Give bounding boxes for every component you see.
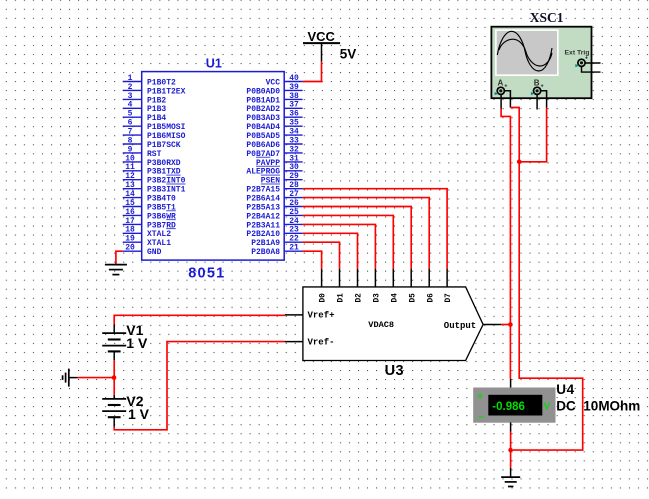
wire pin25 to DAC D4 bbox=[303, 215, 394, 269]
wire scope B dangling stub bbox=[536, 95, 538, 110]
pin 23 P2B2A10 bbox=[284, 232, 302, 234]
oscilloscope XSC1 bbox=[491, 27, 600, 99]
svg-text:PSEN: PSEN bbox=[261, 177, 280, 186]
pin 8 P1B7SCK bbox=[123, 143, 142, 145]
svg-text:P1B0T2: P1B0T2 bbox=[147, 78, 176, 87]
svg-text:P2B7A15: P2B7A15 bbox=[246, 186, 280, 195]
wire pin27 to DAC D6 bbox=[303, 198, 430, 269]
svg-text:32: 32 bbox=[289, 145, 299, 154]
svg-text:P3B7RD: P3B7RD bbox=[147, 221, 176, 230]
svg-text:13: 13 bbox=[125, 181, 135, 190]
svg-text:5: 5 bbox=[128, 110, 133, 119]
svg-text:P3B6WR: P3B6WR bbox=[147, 212, 176, 221]
svg-text:P2B2A10: P2B2A10 bbox=[246, 230, 280, 239]
svg-text:7: 7 bbox=[128, 128, 133, 137]
multimeter U4 bbox=[473, 379, 555, 432]
svg-text:P1B7SCK: P1B7SCK bbox=[147, 141, 181, 150]
svg-text:35: 35 bbox=[289, 119, 299, 128]
pin D3 bbox=[374, 269, 376, 287]
svg-text:38: 38 bbox=[289, 92, 299, 101]
pin D4 bbox=[392, 269, 394, 287]
svg-text:VCC: VCC bbox=[308, 29, 336, 44]
svg-text:A: A bbox=[498, 79, 504, 88]
waveform trace channel A bbox=[497, 31, 552, 71]
svg-text:15: 15 bbox=[125, 199, 135, 208]
pin 10 P3B0RXD bbox=[123, 161, 142, 163]
svg-text:P2B6A14: P2B6A14 bbox=[246, 195, 280, 204]
waveform trace channel B bbox=[499, 39, 552, 66]
pin 35 P0B4AD4 bbox=[284, 125, 302, 127]
wire A-right to B net bbox=[510, 108, 519, 162]
pin 33 P0B6AD6 bbox=[284, 143, 302, 145]
wire pin20 to ground bbox=[116, 251, 123, 264]
pin 17 P3B7RD bbox=[123, 223, 142, 225]
wire scope A right stub bbox=[505, 91, 511, 108]
wire scope A stub bbox=[500, 95, 502, 109]
pin 11 P3B1TXD bbox=[123, 170, 142, 172]
svg-text:RST: RST bbox=[147, 150, 162, 159]
svg-text:P1B6MISO: P1B6MISO bbox=[147, 132, 186, 141]
wire DAC output to node bbox=[501, 324, 510, 326]
svg-text:+: + bbox=[541, 83, 544, 89]
battery V2 bbox=[102, 395, 126, 427]
svg-text:2: 2 bbox=[128, 83, 133, 92]
pin 28 P2B7A15 bbox=[284, 188, 302, 190]
pin 18 XTAL2 bbox=[123, 232, 142, 234]
pin 20 GND bbox=[123, 250, 142, 252]
DAC U3 (VDAC8) bbox=[285, 269, 501, 361]
svg-text:10MOhm: 10MOhm bbox=[583, 399, 640, 414]
svg-text:8051: 8051 bbox=[188, 265, 225, 281]
pin D2 bbox=[357, 269, 359, 287]
pin 2 P1B1T2EX bbox=[123, 89, 142, 91]
svg-text:37: 37 bbox=[289, 101, 299, 110]
svg-text:28: 28 bbox=[289, 181, 299, 190]
svg-text:P2B3A11: P2B3A11 bbox=[246, 221, 280, 230]
svg-text:V: V bbox=[544, 401, 551, 412]
svg-text:Output: Output bbox=[444, 321, 476, 331]
pin 32 P0B7AD7 bbox=[284, 152, 302, 154]
pin 37 P0B2AD2 bbox=[284, 107, 302, 109]
svg-text:11: 11 bbox=[125, 163, 135, 172]
svg-text:-0.986: -0.986 bbox=[492, 401, 525, 413]
svg-text:24: 24 bbox=[289, 217, 299, 226]
pin 30 ALEPROG bbox=[284, 170, 302, 172]
svg-text:P0B5AD5: P0B5AD5 bbox=[246, 132, 280, 141]
meter display bbox=[488, 395, 542, 416]
svg-text:D0: D0 bbox=[320, 293, 328, 303]
svg-text:29: 29 bbox=[289, 172, 299, 181]
svg-text:U4: U4 bbox=[556, 382, 574, 397]
svg-text:10: 10 bbox=[125, 154, 135, 163]
wire scope A to meter + (through DAC output node) bbox=[501, 109, 510, 379]
svg-text:D3: D3 bbox=[374, 293, 382, 303]
svg-text:P0B3AD3: P0B3AD3 bbox=[246, 114, 280, 123]
svg-text:P2B0A8: P2B0A8 bbox=[251, 248, 280, 257]
pin Vref- bbox=[285, 341, 303, 343]
svg-text:36: 36 bbox=[289, 110, 299, 119]
8051 microcontroller U1 bbox=[123, 72, 303, 261]
pin 12 P3B2INT0 bbox=[123, 179, 142, 181]
svg-text:ALEPROG: ALEPROG bbox=[246, 168, 280, 177]
wire scope B right stub bbox=[541, 91, 547, 108]
svg-text:30: 30 bbox=[289, 163, 299, 172]
wire B net to meter - (right bypass) bbox=[513, 162, 583, 450]
svg-text:P3B2INT0: P3B2INT0 bbox=[147, 177, 186, 186]
pin D6 bbox=[428, 269, 430, 287]
pin D1 bbox=[339, 269, 341, 287]
svg-text:P3B0RXD: P3B0RXD bbox=[147, 159, 181, 168]
junction DAC output bbox=[508, 322, 513, 327]
wire V2- to Vref- bbox=[114, 342, 285, 430]
wire pin21 to DAC D0 bbox=[303, 251, 322, 269]
svg-text:P2B4A12: P2B4A12 bbox=[246, 212, 280, 221]
wire pin22 to DAC D1 bbox=[303, 242, 340, 269]
svg-text:23: 23 bbox=[289, 226, 299, 235]
svg-text:P1B2: P1B2 bbox=[147, 96, 166, 105]
svg-text:33: 33 bbox=[289, 136, 299, 145]
svg-text:XSC1: XSC1 bbox=[530, 10, 564, 25]
svg-text:22: 22 bbox=[289, 235, 299, 244]
scope body bbox=[491, 27, 591, 99]
svg-text:27: 27 bbox=[289, 190, 299, 199]
pin 29 PSEN bbox=[284, 179, 302, 181]
svg-text:XTAL1: XTAL1 bbox=[147, 239, 171, 248]
pin 7 P1B6MISO bbox=[123, 134, 142, 136]
pin 14 P3B4T0 bbox=[123, 197, 142, 199]
ground GND3 bbox=[501, 477, 520, 486]
pin 13 P3B3INT1 bbox=[123, 188, 142, 190]
battery V1 bbox=[102, 325, 126, 361]
svg-text:PAVPP: PAVPP bbox=[256, 159, 280, 168]
svg-text:+: + bbox=[504, 83, 507, 89]
pin 27 P2B6A14 bbox=[284, 197, 302, 199]
svg-text:+: + bbox=[585, 55, 588, 61]
svg-text:U3: U3 bbox=[385, 363, 404, 379]
junction meter ground node bbox=[508, 448, 513, 453]
junction scope B net bbox=[517, 160, 522, 165]
svg-text:9: 9 bbox=[128, 145, 133, 154]
svg-text:39: 39 bbox=[289, 83, 299, 92]
svg-text:P2B5A13: P2B5A13 bbox=[246, 203, 280, 212]
svg-text:P0B2AD2: P0B2AD2 bbox=[246, 105, 280, 114]
pin Vref+ bbox=[285, 314, 303, 316]
svg-text:8: 8 bbox=[128, 136, 133, 145]
wire V1+ to Vref+ bbox=[114, 315, 285, 324]
pin 39 P0B0AD0 bbox=[284, 89, 302, 91]
terminal A bbox=[497, 87, 504, 94]
meter top pin stub bbox=[510, 379, 512, 388]
junction battery midpoint bbox=[112, 375, 117, 380]
svg-text:19: 19 bbox=[125, 235, 135, 244]
svg-text:P0B7AD7: P0B7AD7 bbox=[246, 150, 280, 159]
pin D7 bbox=[446, 269, 448, 287]
svg-text:D2: D2 bbox=[356, 293, 364, 303]
pin 4 P1B3 bbox=[123, 107, 142, 109]
svg-text:14: 14 bbox=[125, 190, 135, 199]
svg-text:1: 1 bbox=[128, 74, 133, 83]
pin 36 P0B3AD3 bbox=[284, 116, 302, 118]
svg-text:Vref-: Vref- bbox=[308, 337, 335, 347]
pin 15 P3B5T1 bbox=[123, 206, 142, 208]
svg-text:31: 31 bbox=[289, 154, 299, 163]
svg-text:34: 34 bbox=[289, 128, 299, 137]
svg-text:P2B1A9: P2B1A9 bbox=[251, 239, 280, 248]
svg-text:P3B4T0: P3B4T0 bbox=[147, 195, 176, 204]
svg-text:21: 21 bbox=[289, 244, 299, 253]
svg-text:3: 3 bbox=[128, 92, 133, 101]
pin 40 VCC bbox=[284, 81, 302, 83]
wire pin28 to DAC D7 bbox=[303, 189, 448, 269]
svg-text:P3B5T1: P3B5T1 bbox=[147, 203, 176, 212]
svg-text:40: 40 bbox=[289, 74, 299, 83]
U1 body outline bbox=[142, 72, 285, 261]
pin Output bbox=[483, 324, 501, 326]
svg-text:12: 12 bbox=[125, 172, 135, 181]
terminal Ext Trig bbox=[578, 59, 585, 66]
pin D0 bbox=[321, 269, 323, 287]
pin 31 PAVPP bbox=[284, 161, 302, 163]
svg-text:17: 17 bbox=[125, 217, 135, 226]
pin 16 P3B6WR bbox=[123, 214, 142, 216]
wire pin24 to DAC D3 bbox=[303, 224, 376, 269]
svg-text:6: 6 bbox=[128, 119, 133, 128]
svg-text:VDAC8: VDAC8 bbox=[368, 320, 394, 330]
ground GND2 (rotated) bbox=[63, 369, 78, 387]
pin 9 RST bbox=[123, 152, 142, 154]
svg-text:+: + bbox=[477, 391, 483, 402]
pin 21 P2B0A8 bbox=[284, 250, 302, 252]
svg-text:D1: D1 bbox=[338, 293, 346, 303]
svg-text:GND: GND bbox=[147, 248, 162, 257]
svg-text:1 V: 1 V bbox=[126, 335, 148, 351]
svg-text:B: B bbox=[534, 79, 540, 88]
svg-text:P1B5MOSI: P1B5MOSI bbox=[147, 123, 186, 132]
wire Ext Trig stubs bbox=[582, 63, 601, 72]
pin 24 P2B3A11 bbox=[284, 223, 302, 225]
svg-text:16: 16 bbox=[125, 208, 135, 217]
svg-text:20: 20 bbox=[125, 244, 135, 253]
svg-text:P0B1AD1: P0B1AD1 bbox=[246, 96, 280, 105]
terminal B bbox=[534, 87, 541, 94]
svg-text:4: 4 bbox=[128, 101, 133, 110]
svg-text:P0B0AD0: P0B0AD0 bbox=[246, 87, 280, 96]
svg-text:P3B1TXD: P3B1TXD bbox=[147, 168, 181, 177]
svg-text:5V: 5V bbox=[340, 46, 357, 61]
svg-text:25: 25 bbox=[289, 208, 299, 217]
pin 19 XTAL1 bbox=[123, 241, 142, 243]
svg-text:–: – bbox=[478, 412, 484, 423]
pin 34 P0B5AD5 bbox=[284, 134, 302, 136]
svg-text:P3B3INT1: P3B3INT1 bbox=[147, 186, 186, 195]
svg-text:P1B3: P1B3 bbox=[147, 105, 166, 114]
svg-text:XTAL2: XTAL2 bbox=[147, 230, 171, 239]
pin 38 P0B1AD1 bbox=[284, 98, 302, 100]
svg-text:26: 26 bbox=[289, 199, 299, 208]
pin 5 P1B4 bbox=[123, 116, 142, 118]
svg-text:D4: D4 bbox=[391, 293, 399, 303]
svg-text:P1B4: P1B4 bbox=[147, 114, 166, 123]
wire pin26 to DAC D5 bbox=[303, 207, 412, 270]
pin D5 bbox=[410, 269, 412, 287]
svg-text:U1: U1 bbox=[206, 56, 222, 70]
svg-text:VCC: VCC bbox=[266, 78, 281, 87]
wire pin23 to DAC D2 bbox=[303, 233, 358, 269]
pin 3 P1B2 bbox=[123, 98, 142, 100]
wire meter - to ground bbox=[510, 432, 512, 468]
meter body bbox=[473, 388, 555, 423]
pin 22 P2B1A9 bbox=[284, 241, 302, 243]
pin 25 P2B4A12 bbox=[284, 214, 302, 216]
VCC power symbol bbox=[303, 29, 356, 61]
pin 26 P2B5A13 bbox=[284, 206, 302, 208]
svg-text:P0B6AD6: P0B6AD6 bbox=[246, 141, 280, 150]
svg-text:P1B1T2EX: P1B1T2EX bbox=[147, 87, 186, 96]
wire ground to battery junction bbox=[78, 377, 114, 379]
svg-text:P0B4AD4: P0B4AD4 bbox=[246, 123, 280, 132]
wire junction to B stub bbox=[519, 108, 546, 162]
pin 1 P1B0T2 bbox=[123, 81, 142, 83]
wire ground stub bbox=[510, 468, 512, 477]
wire pin40 to VCC bbox=[303, 62, 322, 82]
scope screen bbox=[496, 30, 558, 75]
svg-text:D6: D6 bbox=[427, 293, 435, 303]
svg-text:18: 18 bbox=[125, 226, 135, 235]
pin 6 P1B5MOSI bbox=[123, 125, 142, 127]
svg-text:Vref+: Vref+ bbox=[308, 311, 335, 321]
svg-text:1 V: 1 V bbox=[128, 406, 150, 422]
wire V1- to V2+ bbox=[113, 360, 115, 395]
svg-text:D7: D7 bbox=[445, 293, 453, 303]
svg-text:DC: DC bbox=[556, 399, 576, 414]
ground GND1 bbox=[105, 265, 127, 275]
meter bottom pin stub bbox=[510, 422, 512, 431]
svg-text:D5: D5 bbox=[409, 293, 417, 303]
